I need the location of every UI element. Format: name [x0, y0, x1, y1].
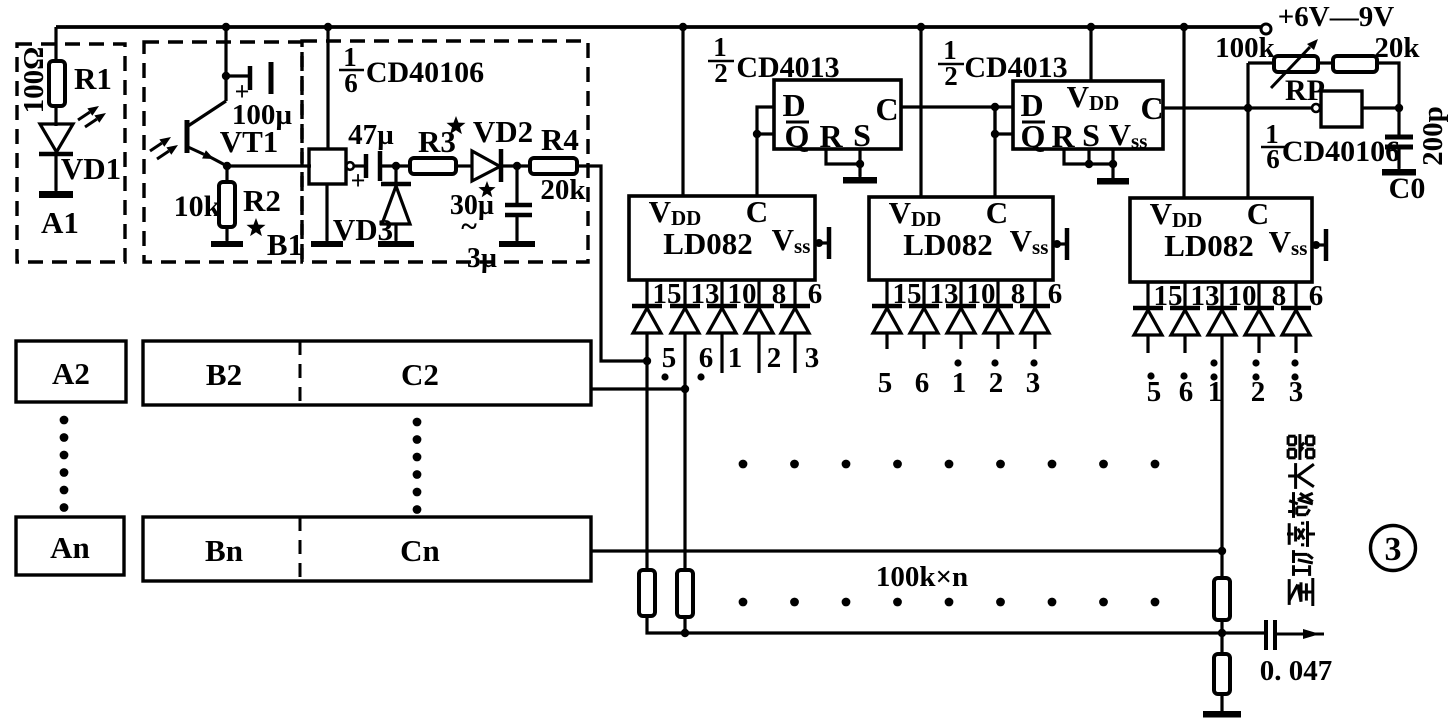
svg-text:100k: 100k	[1215, 32, 1276, 64]
wire: 20k right down to oscillator output node	[1377, 63, 1399, 108]
svg-text:VT1: VT1	[220, 124, 279, 159]
junction: rail to LD082 #3 VDD	[1180, 23, 1188, 31]
diode on pin 15 of LD082 #1	[632, 306, 662, 333]
svg-text:R3: R3	[418, 124, 456, 159]
junction: emitter node	[223, 162, 231, 170]
svg-text:VD3: VD3	[333, 212, 393, 247]
svg-text:VD2: VD2	[473, 114, 533, 149]
wire: diode 2 lead down (LD082 #3)	[1257, 335, 1260, 353]
IC U4 LD082 #3	[1130, 196, 1312, 282]
wire: FF1 D-Qbar feedback loop	[757, 107, 774, 134]
svg-text:6: 6	[915, 367, 930, 399]
pin 6 stub of LD082 #2	[1033, 280, 1036, 306]
capacitor C0 200p	[1385, 137, 1413, 147]
diode on pin 6 of LD082 #3	[1281, 308, 1311, 335]
wire: rail down to R1	[54, 27, 57, 61]
wire: column resistors to output bus	[647, 616, 685, 633]
svg-text:3: 3	[805, 342, 820, 374]
junction: output bus left	[681, 629, 689, 637]
svg-text:C: C	[986, 195, 1008, 230]
diode on pin 8 of LD082 #2	[983, 306, 1013, 333]
svg-text:VD1: VD1	[61, 151, 121, 186]
capacitor 47u	[351, 151, 380, 195]
ground of 30u	[499, 228, 535, 244]
ellipsis between A2 and An	[60, 416, 69, 512]
wire: rail to LD082 #3 VDD	[1182, 27, 1185, 198]
wire: RP left to oscillator input node	[1248, 61, 1274, 64]
junction: osc RC node	[1395, 104, 1403, 112]
svg-text:CD4013: CD4013	[964, 51, 1067, 84]
svg-text:+: +	[351, 166, 366, 195]
pin 8 stub of LD082 #2	[996, 280, 999, 306]
label 1/2 CD4013 (FF1)	[708, 32, 840, 88]
junction: rail to VT1 collector	[222, 23, 230, 31]
wire: FF2 D-Qbar feedback loop	[995, 107, 1013, 134]
svg-text:2: 2	[1251, 376, 1266, 408]
svg-text:R2: R2	[243, 183, 281, 218]
ground of C0	[1382, 156, 1416, 172]
svg-text:Bn: Bn	[205, 533, 243, 568]
note 至功率放大器 (to power amplifier, vertical)	[1287, 434, 1315, 606]
wire: VD2 to R4 with 30u tap	[503, 164, 530, 167]
svg-text:~: ~	[461, 210, 477, 243]
diode on pin 8 of LD082 #1	[744, 306, 774, 333]
wire: diode 2 lead down (LD082 #2)	[996, 333, 999, 349]
light arrows into VT1	[150, 137, 178, 159]
svg-text:0. 047: 0. 047	[1260, 655, 1333, 687]
inverter U1 (1/6 CD40106)	[309, 149, 346, 184]
junction: FF2 S ground node	[1085, 160, 1093, 168]
output bubble of U5	[1312, 104, 1320, 112]
svg-text:1: 1	[1208, 376, 1223, 408]
svg-text:Cn: Cn	[400, 533, 440, 568]
wire: emitter to inverter input	[227, 164, 311, 167]
svg-text:CD40106: CD40106	[1282, 135, 1400, 168]
svg-text:2: 2	[767, 342, 782, 374]
wire: R3 to VD2	[456, 164, 472, 167]
junction: FF2 Vss ground node	[1109, 160, 1117, 168]
junction: 30u node	[513, 162, 521, 170]
light arrows of VD1	[78, 106, 106, 127]
wire: node to capacitor 100u	[226, 74, 248, 77]
wire: rail to FF2 VDD	[1089, 27, 1092, 81]
wire: diode 1 lead down (LD082 #1)	[720, 333, 723, 373]
Vss pin of LD082 #3 to bias bar	[1312, 229, 1326, 261]
wire: R2 to ground	[225, 227, 228, 240]
svg-text:6: 6	[808, 278, 823, 310]
star mark at R2	[247, 218, 266, 236]
svg-text:2: 2	[989, 367, 1004, 399]
diode on pin 13 of LD082 #3	[1170, 308, 1200, 335]
wire: FF2 R,S,Vss to ground	[1064, 149, 1113, 164]
diode on pin 6 of LD082 #2	[1020, 306, 1050, 333]
svg-text:6: 6	[1266, 144, 1280, 174]
svg-text:+6V—9V: +6V—9V	[1278, 1, 1394, 33]
star mark at R3	[447, 116, 466, 134]
output labels 5 6 1 2 3 (LD082 #3)	[1147, 376, 1304, 408]
resistor R2	[219, 182, 235, 227]
svg-text:Vss: Vss	[1269, 224, 1308, 260]
svg-text:20k: 20k	[1374, 32, 1420, 64]
wire: FF1 R,S to ground	[826, 149, 860, 164]
wire: C0 to ground	[1397, 147, 1400, 168]
Vss pin of LD082 #1 to bias bar	[815, 227, 829, 259]
Vss pin of LD082 #2 to bias bar	[1053, 228, 1067, 260]
potentiometer RP 100k	[1271, 39, 1318, 88]
wire: diode 6 lead down (LD082 #2)	[922, 333, 925, 349]
svg-text:6: 6	[1309, 280, 1324, 312]
pin 8 stub of LD082 #1	[757, 280, 760, 306]
ground of U1	[311, 228, 343, 244]
wire: Cn output bus	[591, 549, 1222, 552]
wire: diode 5 lead down (LD082 #2)	[885, 333, 888, 349]
ground of FF1	[843, 164, 877, 180]
box An	[16, 517, 124, 575]
capacitor 0.047 coupling	[1266, 620, 1275, 650]
pin 6 stub of LD082 #3	[1294, 282, 1297, 308]
box Bn/Cn	[143, 517, 591, 581]
wire: oscillator node down to LD082 #3 C	[1246, 63, 1249, 198]
svg-text:VDD: VDD	[1067, 79, 1120, 115]
wire: FF2 Q node down to LD082 #2 C	[993, 107, 996, 197]
pin 10 stub of LD082 #2	[959, 280, 962, 306]
wire: VD1 to ground	[54, 154, 57, 190]
wire: diode 1 lead down (LD082 #2)	[959, 333, 962, 349]
ellipsis row lower	[739, 598, 1160, 607]
wire+arrow: to power amplifier	[1275, 629, 1324, 639]
svg-text:An: An	[50, 530, 90, 565]
wire: FF1 Q node down to LD082 #1 C	[755, 134, 758, 196]
wire: rail down to inverter U1	[326, 27, 329, 149]
dashed box A1	[17, 44, 125, 262]
ground of R2	[211, 228, 243, 244]
pin 15 stub of LD082 #3	[1146, 282, 1149, 308]
svg-text:3: 3	[1289, 376, 1304, 408]
svg-text:47µ: 47µ	[348, 119, 394, 151]
svg-text:1: 1	[728, 342, 743, 374]
LED VD1	[39, 124, 73, 154]
wire: U1 to ground	[325, 184, 328, 240]
wire: RP to 20k	[1318, 61, 1333, 64]
svg-text:3: 3	[1385, 531, 1402, 568]
wire: emitter down to R2	[225, 166, 228, 182]
resistor load to ground	[1214, 654, 1230, 694]
svg-text:VDD: VDD	[649, 194, 702, 230]
ground of VD1	[39, 178, 73, 195]
transistor VT1 (photo)	[187, 101, 227, 166]
svg-text:2: 2	[944, 61, 958, 91]
svg-text:C0: C0	[1389, 172, 1426, 205]
svg-text:CD40106: CD40106	[366, 56, 484, 89]
junction: C2 to column	[681, 385, 689, 393]
wire: U1 output to 47u	[354, 164, 365, 167]
wire: diode 1 lead down (LD082 #3)	[1220, 335, 1223, 551]
resistor 20k (osc)	[1333, 56, 1377, 72]
wire: node down to VD3	[394, 166, 397, 184]
flip-flop U3 1/2 CD4013 #1	[774, 80, 901, 154]
wire: VD3 to ground	[394, 224, 397, 240]
label 1/6 CD40106 (osc)	[1261, 119, 1400, 174]
wire: FF2 clock C from oscillator	[1163, 106, 1312, 109]
svg-text:2: 2	[714, 58, 728, 88]
junction: VD3 node	[392, 162, 400, 170]
svg-text:3: 3	[1026, 367, 1041, 399]
diode on pin 10 of LD082 #1	[707, 306, 737, 333]
wire: top +V supply rail	[56, 25, 1261, 29]
svg-text:LD082: LD082	[903, 227, 993, 262]
svg-text:C: C	[746, 194, 768, 229]
svg-text:R4: R4	[541, 122, 579, 157]
box A2	[16, 341, 126, 402]
junction: FF1 RS ground node	[856, 160, 864, 168]
svg-text:C: C	[1247, 196, 1269, 231]
diode on pin 10 of LD082 #3	[1207, 308, 1237, 335]
wire: diode 6 lead down (LD082 #1)	[683, 333, 686, 570]
diode VD3	[381, 184, 411, 224]
svg-text:A1: A1	[41, 205, 79, 240]
wire: node down to C0	[1397, 108, 1400, 136]
resistor 100k (column 2)	[677, 570, 693, 617]
svg-text:Vss: Vss	[772, 222, 811, 258]
junction: rail to LD082 #2 VDD	[917, 23, 925, 31]
diode on pin 13 of LD082 #2	[909, 306, 939, 333]
svg-text:Vss: Vss	[1010, 223, 1049, 259]
svg-text:B1: B1	[267, 227, 303, 262]
diode on pin 13 of LD082 #1	[670, 306, 700, 333]
wire: 47u to R3 with VD3 tap	[380, 164, 410, 167]
diode on pin 10 of LD082 #2	[946, 306, 976, 333]
svg-text:6: 6	[1179, 376, 1194, 408]
svg-text:S: S	[853, 117, 871, 153]
junction: collector / 100u cap	[222, 72, 230, 80]
svg-text:6: 6	[344, 68, 358, 98]
diode on pin 6 of LD082 #1	[780, 306, 810, 333]
pin 13 stub of LD082 #2	[922, 280, 925, 306]
junction: FF2 divider node (to FF1 clock)	[991, 103, 999, 111]
dashed box B1	[144, 42, 302, 262]
diode on pin 15 of LD082 #2	[872, 306, 902, 333]
wire: R1 to VD1	[54, 106, 57, 126]
capacitor 100u	[235, 62, 271, 106]
wire: R4 output down to diode column 1	[577, 166, 643, 361]
dashed box C1	[302, 41, 588, 262]
svg-text:3µ: 3µ	[467, 243, 497, 274]
ellipsis dots (LD082 #3)	[1147, 359, 1298, 380]
svg-text:20k: 20k	[540, 174, 586, 206]
resistor R4	[530, 158, 577, 174]
diode VD2	[472, 149, 501, 182]
wire: U5 right side to output node	[1362, 106, 1399, 109]
IC U2 LD082 #1	[629, 194, 815, 280]
junction: rail to CD4013 #2 VDD	[1087, 23, 1095, 31]
wire: diode 3 lead down (LD082 #3)	[1294, 335, 1297, 353]
output labels 5 6 1 2 3 (LD082 #2)	[878, 367, 1041, 399]
ground of VD3	[378, 228, 414, 244]
inverter U5 (1/6 CD40106 osc)	[1321, 91, 1362, 127]
wire: diode 5 lead down (LD082 #1)	[645, 333, 648, 570]
svg-text:6: 6	[699, 342, 714, 374]
wire: C2 output to diode column 6	[591, 387, 685, 390]
junction: Cn bus to LD082#3 column	[1218, 547, 1226, 555]
svg-text:1: 1	[952, 367, 967, 399]
svg-text:LD082: LD082	[663, 226, 753, 261]
svg-text:VDD: VDD	[1150, 196, 1203, 232]
junction: FF1 Qbar node	[753, 130, 761, 138]
ellipsis between C2 and Cn	[413, 418, 422, 514]
diode on pin 15 of LD082 #3	[1133, 308, 1163, 335]
wire: load resistor to ground	[1220, 694, 1223, 711]
svg-text:200p: 200p	[1417, 106, 1449, 166]
pin 13 stub of LD082 #1	[683, 280, 686, 306]
junction: rail to inverter U1	[324, 23, 332, 31]
resistor R1	[49, 61, 65, 106]
svg-text:RP: RP	[1285, 74, 1325, 107]
wire: rail to LD082 #2 VDD	[919, 27, 922, 197]
wire: diode 6 lead down (LD082 #3)	[1183, 335, 1186, 353]
svg-text:6: 6	[1048, 278, 1063, 310]
svg-text:A2: A2	[52, 356, 90, 391]
wire: node down to 30u	[515, 166, 518, 203]
resistor 100k (column 1)	[639, 570, 655, 616]
output bubble of U1	[346, 162, 354, 170]
wire: Cn column resistor joins bus	[1220, 551, 1223, 578]
junction: FF2 Qbar node	[991, 130, 999, 138]
pin 10 stub of LD082 #3	[1220, 282, 1223, 308]
wire: FF1 clock C from divider node	[901, 105, 995, 108]
wire: diode 2 lead down (LD082 #1)	[757, 333, 760, 373]
svg-text:C: C	[875, 91, 898, 127]
svg-text:B2: B2	[206, 357, 242, 392]
wire: summing output bus	[685, 631, 1264, 634]
pin 6 stub of LD082 #1	[793, 280, 796, 306]
label 1/2 CD4013 (FF2)	[938, 35, 1068, 91]
IC U3 LD082 #2	[869, 195, 1053, 280]
output labels 5 6 1 2 3 (LD082 #1)	[662, 342, 820, 374]
ellipsis dots under labels 5,6 (LD082 #1)	[661, 373, 704, 380]
junction: channel1 output to diode column 5	[643, 357, 651, 365]
resistor R3	[410, 158, 456, 174]
ellipsis row upper	[739, 460, 1160, 469]
svg-text:5: 5	[1147, 376, 1162, 408]
junction: oscillator output node at LD082 #3 C	[1244, 104, 1252, 112]
svg-text:S: S	[1082, 117, 1100, 153]
svg-text:C2: C2	[401, 357, 439, 392]
wire: 30u to ground	[515, 215, 518, 240]
ground of FF2	[1097, 165, 1129, 181]
pin 15 stub of LD082 #1	[645, 280, 648, 306]
wire: rail down to collector node	[224, 27, 227, 101]
junction: output bus right	[1218, 629, 1226, 637]
pin 15 stub of LD082 #2	[885, 280, 888, 306]
svg-text:100k×n: 100k×n	[876, 561, 968, 593]
star mark at 30u	[478, 181, 495, 197]
pin 8 stub of LD082 #3	[1257, 282, 1260, 308]
svg-text:LD082: LD082	[1164, 228, 1254, 263]
resistor 100k (column n)	[1214, 578, 1230, 620]
svg-text:R: R	[819, 118, 843, 154]
pin 13 stub of LD082 #3	[1183, 282, 1186, 308]
label 1/6 CD40106	[339, 42, 484, 98]
box B2/C2	[143, 341, 591, 405]
svg-text:5: 5	[878, 367, 893, 399]
svg-text:5: 5	[662, 342, 677, 374]
svg-text:VDD: VDD	[889, 195, 942, 231]
ellipsis dots (LD082 #2)	[954, 359, 1037, 366]
svg-text:C: C	[1140, 90, 1163, 126]
wire: diode 5 lead down (LD082 #3)	[1146, 335, 1149, 353]
wire: diode 3 lead down (LD082 #1)	[793, 333, 796, 373]
svg-text:100Ω: 100Ω	[18, 47, 50, 114]
svg-text:R1: R1	[74, 61, 112, 96]
svg-text:R: R	[1051, 118, 1075, 154]
capacitor 30u~3u	[505, 205, 532, 215]
power terminal +6V-9V	[1261, 1, 1394, 34]
wire: rail to LD082 #1 VDD	[681, 27, 684, 196]
ground bottom right	[1203, 698, 1241, 714]
junction: rail to LD082 #1 VDD	[679, 23, 687, 31]
wire: diode 3 lead down (LD082 #2)	[1033, 333, 1036, 349]
pin 10 stub of LD082 #1	[720, 280, 723, 306]
figure number 3 (circled)	[1371, 526, 1416, 571]
diode on pin 8 of LD082 #3	[1244, 308, 1274, 335]
flip-flop U4 1/2 CD4013 #2	[1013, 79, 1164, 154]
svg-text:10k: 10k	[174, 190, 221, 223]
